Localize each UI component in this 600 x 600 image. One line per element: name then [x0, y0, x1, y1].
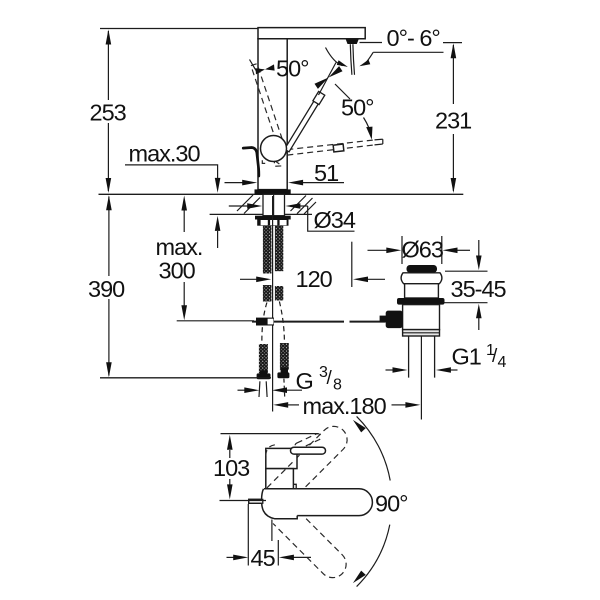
bottom view solid shapes over dashed: [249, 447, 373, 519]
dim max.300 upper arrow: [183, 211, 185, 233]
left supply hose braided: [263, 226, 272, 274]
water stream lines: [350, 44, 352, 75]
dim 35-45 top tick: [445, 270, 488, 272]
drain neck: [405, 284, 439, 298]
dashed handle grip near pivot: [274, 161, 282, 167]
deck hatching right of hole: [291, 196, 317, 215]
svg-text:253: 253: [90, 100, 127, 126]
angle bowtie at solid lever: [329, 66, 343, 77]
dim G3/8 arrows: [238, 389, 247, 391]
svg-text:120: 120: [296, 266, 333, 292]
svg-text:max.180: max.180: [303, 393, 387, 419]
dim 35-45 bottom tick: [445, 302, 488, 304]
drain body: [403, 305, 440, 330]
max.30 lower arrow: [217, 231, 219, 248]
svg-text:90°: 90°: [375, 491, 408, 517]
dashed lever rotated up: [294, 433, 322, 451]
svg-text:300: 300: [159, 258, 196, 284]
right connector dashed tail: [283, 379, 286, 397]
0-6 leader lines: [360, 42, 383, 44]
dim 253 line: [107, 31, 109, 191]
svg-text:45: 45: [251, 545, 276, 571]
arc arrow bottom: [352, 570, 366, 583]
35-45 arrows: [478, 240, 480, 257]
dim max.180 left arrow: [273, 402, 288, 408]
svg-text:50°: 50°: [341, 95, 374, 121]
handle pivot circle: [261, 136, 287, 162]
dim Ø63 extension lines: [402, 236, 442, 264]
right hose dashed curve: [279, 302, 284, 343]
leader to second 50 deg: [335, 84, 350, 99]
drain flange: [401, 273, 442, 284]
0-6 deg left arc: [326, 48, 343, 66]
angle bowtie at dashed lever: [255, 68, 265, 74]
solid lever bar at 50 deg: [284, 91, 325, 152]
lever centerline extension: [319, 63, 337, 96]
drain waste set: cap: [407, 265, 438, 273]
dim Ø63 arrows: [368, 249, 388, 251]
dashed open lever horizontal: [287, 140, 374, 150]
left connector thread lines below: [259, 381, 267, 397]
faucet centerline below deck: [272, 196, 274, 412]
body foot outline: [249, 489, 297, 519]
dim max.300 lower arrow: [183, 282, 185, 306]
dim 51 arrows: [225, 182, 244, 184]
drain o-ring band: [397, 298, 445, 305]
svg-text:max.30: max.30: [129, 141, 201, 167]
dim 231 top tick: [443, 42, 462, 44]
Ø34 leader bracket: [308, 206, 355, 231]
dim 103 line: [229, 450, 231, 487]
pop-up rod horizontal: [252, 321, 386, 323]
hose end reference line: [100, 377, 271, 379]
faucet spout and body outline: [258, 28, 365, 39]
body column front: [266, 469, 294, 489]
handle lever front: [291, 447, 326, 454]
dim G1 1/4 arrows: [386, 369, 395, 371]
faucet base plate: [255, 189, 291, 194]
spout stadium front: [264, 489, 372, 516]
dim 231 line: [452, 45, 454, 191]
locknut flange: [255, 216, 291, 220]
svg-text:/: /: [327, 368, 333, 389]
dim max.30 underline and line: [125, 165, 218, 178]
left G3/8 connector braid: [259, 344, 268, 373]
svg-text:0°- 6°: 0°- 6°: [387, 25, 440, 51]
dim 45 extension lines: [247, 504, 249, 566]
deck hatching left of hole: [237, 195, 260, 214]
120 extension line: [351, 242, 353, 287]
pop-up rod coupler: [256, 318, 274, 326]
right G3/8 connector cap: [281, 368, 288, 373]
dashed open-handle lever up-left: [251, 64, 286, 151]
right G3/8 connector braid: [280, 343, 289, 370]
threaded shank: [263, 194, 285, 215]
shank centerline: [273, 195, 275, 216]
0-6 deg right arc: [364, 52, 374, 65]
svg-text:Ø34: Ø34: [314, 207, 356, 233]
90 deg arc lower: [357, 525, 390, 587]
dim 390 line: [108, 197, 110, 376]
svg-text:103: 103: [213, 455, 250, 481]
dim 120 left arrow: [240, 278, 258, 280]
drain tailpiece: [409, 336, 435, 378]
dashed diagonal across column: [267, 461, 294, 488]
svg-text:50°: 50°: [276, 56, 309, 82]
svg-text:8: 8: [333, 377, 342, 394]
svg-text:231: 231: [435, 108, 471, 134]
drain centerline: [420, 336, 422, 420]
rod pivot joint: [386, 311, 403, 329]
dashed spout rotated down 45: [273, 505, 352, 584]
svg-text:G1: G1: [452, 344, 481, 370]
dim 103 top tick: [221, 433, 319, 435]
dashed spout rotated up 45: [274, 421, 353, 500]
svg-text:35-45: 35-45: [451, 276, 507, 302]
arc arrow top: [352, 420, 366, 433]
90 deg arc upper: [357, 416, 391, 480]
dim 120 right arrow: [367, 278, 386, 280]
column step right: [293, 484, 296, 489]
max.300 bottom tick: [177, 320, 254, 322]
svg-text:51: 51: [314, 160, 338, 186]
right supply hose braided: [275, 226, 283, 272]
right hose stub below break: [275, 286, 283, 301]
svg-text:4: 4: [498, 354, 507, 371]
svg-text:390: 390: [88, 276, 125, 302]
handle cartridge front: [266, 448, 297, 468]
closed-handle hook: [243, 148, 259, 177]
left hose dashed curve: [262, 303, 267, 344]
mounting stub left: [249, 499, 263, 503]
svg-text:max.: max.: [156, 234, 203, 260]
lever tick up-left: [250, 60, 257, 71]
50 deg swing arc with arrow: [364, 118, 372, 137]
dim max.180 right arrow: [405, 402, 420, 408]
dashed corner at cartridge top-left: [266, 445, 278, 456]
dim 253: top tick: [100, 28, 258, 30]
dim 103 bottom tick: [220, 500, 267, 502]
locknut knurled body: [257, 220, 288, 226]
dim Ø34 arrows: [229, 205, 249, 207]
deck bottom line: [210, 213, 312, 215]
drain bottom collar: [403, 330, 440, 336]
left G3/8 connector cap: [260, 371, 268, 375]
deck top line: [99, 193, 464, 195]
dim 45 arrows: [227, 556, 235, 558]
aerator: [346, 40, 359, 45]
left hose stub below break: [263, 285, 272, 302]
svg-text:Ø63: Ø63: [402, 237, 444, 263]
